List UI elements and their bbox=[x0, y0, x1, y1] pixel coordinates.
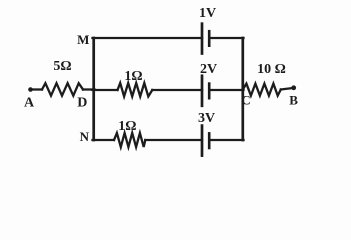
wire node D to node N handled by bus; wire N to 1-ohm bottom resistor bbox=[93, 139, 115, 141]
wire top branch left (M to 1V battery) bbox=[93, 37, 203, 39]
wire 2V battery to node C bbox=[209, 89, 243, 91]
svg-text:M: M bbox=[77, 32, 89, 47]
wire node D to 1-ohm resistor (middle branch) bbox=[93, 89, 118, 91]
battery B2 2V positive plate bbox=[201, 76, 204, 106]
node B terminal dot bbox=[291, 85, 296, 90]
wire 3V battery to right bus bbox=[209, 139, 243, 141]
svg-text:A: A bbox=[24, 96, 35, 111]
battery B3 3V negative plate bbox=[208, 133, 211, 148]
wire 1-ohm bottom resistor to 3V battery bbox=[145, 139, 202, 141]
svg-text:5Ω: 5Ω bbox=[53, 59, 71, 74]
node A terminal dot bbox=[28, 87, 33, 92]
svg-text:3V: 3V bbox=[198, 111, 215, 126]
svg-text:B: B bbox=[289, 93, 298, 108]
battery B3 3V positive plate bbox=[201, 126, 204, 156]
wire top branch right (1V battery to right bus) bbox=[209, 37, 243, 39]
wire 10-ohm resistor to node B bbox=[281, 88, 293, 90]
battery B1 1V positive plate bbox=[201, 24, 204, 54]
svg-text:C: C bbox=[241, 93, 250, 108]
svg-text:10 Ω: 10 Ω bbox=[257, 62, 286, 77]
svg-text:1V: 1V bbox=[199, 6, 216, 21]
resistor R3 1 ohm (bottom) bbox=[114, 133, 145, 147]
resistor R1 5 ohm bbox=[42, 83, 83, 96]
svg-text:1Ω: 1Ω bbox=[118, 119, 136, 134]
wire 1-ohm resistor to 2V battery bbox=[152, 89, 202, 91]
wire right vertical bus to node C bbox=[241, 38, 244, 140]
resistor R2 1 ohm (middle) bbox=[118, 83, 153, 97]
svg-text:D: D bbox=[77, 96, 87, 111]
svg-text:1Ω: 1Ω bbox=[124, 69, 142, 84]
wire 5-ohm resistor to node D bbox=[83, 88, 95, 90]
resistor R4 10 ohm bbox=[243, 84, 281, 96]
svg-text:2V: 2V bbox=[200, 62, 217, 77]
wire A to 5-ohm resistor bbox=[31, 88, 43, 90]
battery B2 2V negative plate bbox=[208, 84, 211, 99]
wire left vertical bus M-D-N bbox=[92, 38, 95, 140]
battery B1 1V negative plate bbox=[208, 31, 211, 46]
svg-text:N: N bbox=[80, 129, 90, 144]
